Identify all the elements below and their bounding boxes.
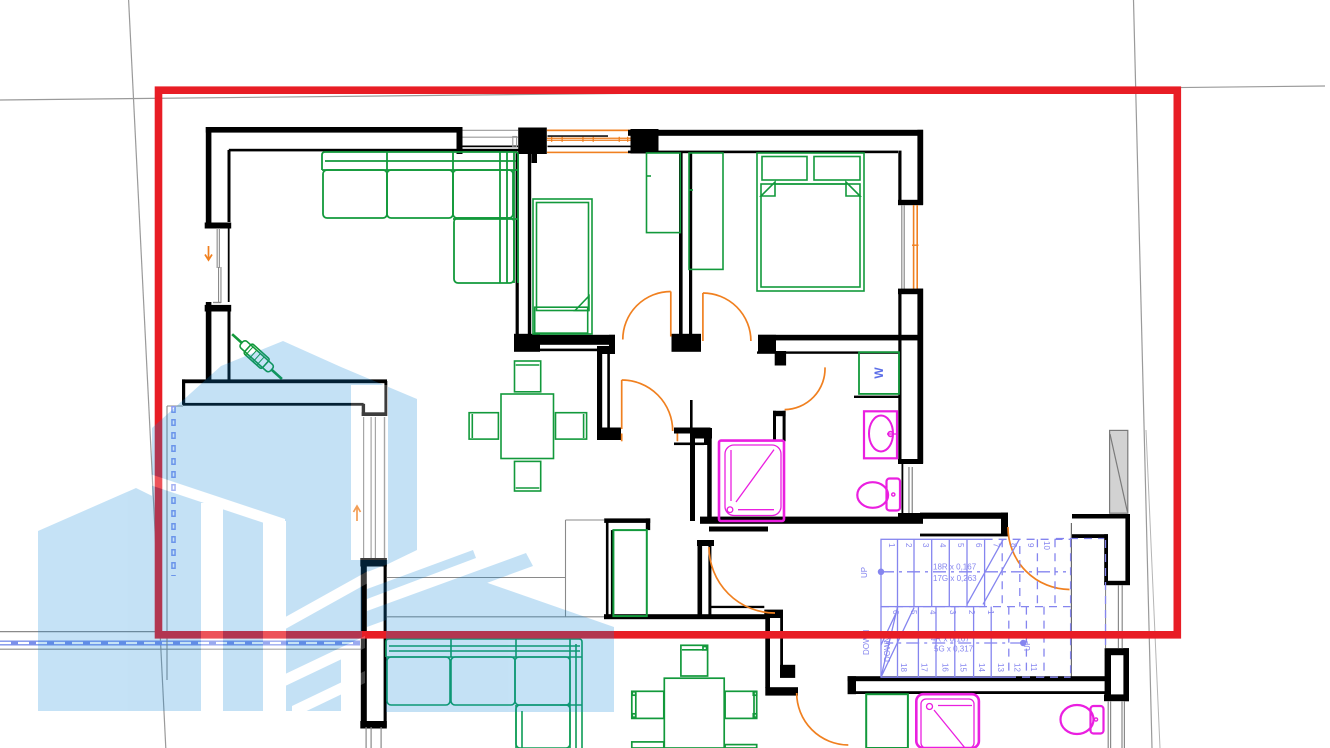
left window inner black line (228, 228, 230, 302)
svg-text:15: 15 (958, 663, 967, 672)
house A left (38, 488, 209, 711)
right wall lower band (1105, 655, 1111, 701)
dashed continuation upper (985, 539, 1071, 677)
right wall WC window gray lines (902, 464, 904, 513)
porch wall right pier outline (362, 404, 365, 416)
svg-text:4: 4 (928, 610, 937, 615)
treads lower flight (898, 607, 992, 678)
svg-text:5: 5 (909, 610, 918, 615)
bedroom2 partition (516, 153, 519, 334)
svg-text:7: 7 (992, 543, 1001, 548)
washing machine (859, 352, 899, 394)
lower unit entry door (797, 693, 849, 745)
svg-text:4: 4 (938, 543, 947, 548)
window swing arrow left (205, 246, 212, 260)
bedroom2 wardrobe (647, 153, 681, 233)
bedroom3 double bed (757, 153, 864, 291)
white swoosh gap 2 (292, 671, 365, 718)
lower dining table (632, 645, 757, 748)
top wall pier left of window W1a (457, 127, 463, 154)
porch wall left cap (182, 379, 185, 404)
lower shower (916, 694, 979, 748)
fence gray line upper (0, 631, 167, 633)
corridor door lower (709, 547, 775, 613)
svg-text:2: 2 (904, 543, 913, 548)
svg-text:UP: UP (1023, 640, 1032, 651)
lower unit interior L wall (711, 606, 764, 608)
sofa chaise (454, 218, 514, 283)
central-left window gray lines (363, 417, 385, 558)
svg-text:11: 11 (1029, 663, 1038, 672)
bedroom2 bottom wall (514, 335, 615, 345)
svg-text:W: W (872, 367, 886, 379)
break lines upper (967, 539, 1019, 604)
winder diagonals (881, 607, 914, 677)
bath bottom wall (700, 517, 923, 524)
stairwell door (1008, 527, 1070, 590)
center line upper with dot (878, 569, 883, 574)
survey boundary line right (1134, 0, 1153, 748)
hall-left wall (597, 346, 615, 354)
top wall outer left section (206, 127, 457, 133)
sofa back (322, 152, 518, 170)
white tower 1 (201, 503, 223, 711)
stair bottom wall (848, 676, 856, 694)
WC partition wall piece (773, 411, 786, 416)
kitchen door (621, 380, 623, 429)
left window gray lines (213, 228, 222, 303)
fence blue dashed line (0, 641, 360, 646)
stair right top L wall (1072, 514, 1130, 519)
svg-text:17G x 0,263: 17G x 0,263 (933, 574, 977, 583)
top wall inner line right section (628, 151, 898, 154)
treads upper flight (898, 539, 968, 606)
swoosh stripe 2 (367, 553, 533, 627)
bed2/bed3 partition (679, 153, 683, 334)
upper shower (719, 441, 784, 521)
window W1b black lines (548, 135, 609, 137)
right window W2 gray lines (901, 205, 905, 290)
svg-text:2: 2 (967, 610, 976, 615)
svg-text:18: 18 (899, 663, 908, 672)
fence gray line lower (0, 648, 363, 650)
left wall inner upper (228, 150, 231, 222)
svg-text:5: 5 (956, 543, 965, 548)
house E (386, 582, 614, 712)
left wall outer upper (206, 127, 212, 223)
bath left wall (690, 400, 693, 428)
left wall cap above window (205, 223, 232, 229)
center line lower with dot (1021, 640, 1026, 645)
corridor wall to lower unit (697, 540, 714, 546)
porch wall top line (182, 379, 387, 383)
right wall upper corner (917, 130, 923, 205)
bedroom2 single bed (533, 199, 592, 334)
central-left wall band (361, 558, 367, 727)
window swing arrow center (354, 506, 361, 521)
laundry shelf line (854, 396, 899, 398)
window W1b orange lines (547, 130, 631, 154)
bedroom3 door (702, 293, 704, 341)
porch gray edge (167, 406, 183, 680)
porch blue dashed line (171, 406, 176, 576)
lower unit door green rect (866, 694, 908, 748)
kitchen unit left black lines (606, 521, 609, 616)
lower sofa (386, 639, 582, 748)
upper dining table (469, 361, 586, 491)
white roof band (150, 474, 285, 530)
bedroom2 door (670, 292, 672, 337)
top wall outer right section (628, 130, 923, 136)
svg-text:12: 12 (1012, 663, 1021, 672)
top wall pier right of window W1b (631, 129, 659, 154)
right wall bottom corner (898, 513, 923, 523)
svg-text:UP: UP (860, 567, 869, 578)
survey boundary line left (129, 0, 166, 748)
upper toilet (857, 482, 888, 508)
svg-text:5G x 0,317: 5G x 0,317 (934, 645, 974, 654)
bedroom3 wardrobe (689, 153, 723, 269)
left wall pier lower (206, 302, 212, 381)
white swoosh gap 1 (281, 636, 365, 688)
partition notch below pier (532, 151, 538, 163)
lower unit top wall (604, 614, 768, 619)
bed3 bottom wall (758, 335, 776, 353)
top wall pier between windows (518, 128, 547, 155)
lower toilet (1061, 705, 1094, 734)
survey boundary line top (0, 86, 1325, 100)
svg-text:13: 13 (996, 663, 1005, 672)
stair top wall (920, 513, 1008, 519)
svg-text:6: 6 (891, 610, 900, 615)
swoosh stripe 1 (367, 550, 476, 599)
top wall inner line left section (229, 149, 520, 152)
svg-text:3: 3 (921, 543, 930, 548)
stair outline upper flight (881, 539, 985, 606)
white swoosh band upper (280, 571, 368, 632)
svg-text:1: 1 (887, 543, 896, 548)
right wall window gray lines upper (1105, 585, 1123, 648)
central-left lower window gray lines (366, 727, 382, 748)
window W1a sill lines (461, 130, 519, 137)
svg-text:8: 8 (1009, 543, 1018, 548)
svg-text:10: 10 (1042, 541, 1051, 550)
white doorway column (351, 385, 388, 560)
white tower 2 (263, 521, 286, 711)
svg-text:DOWN: DOWN (883, 636, 892, 662)
gray counter lines upper kitchen (387, 520, 604, 617)
bath door arc (785, 367, 825, 409)
svg-text:6: 6 (974, 543, 983, 548)
right window W2 orange lines (912, 205, 919, 290)
svg-text:18R x 0,167: 18R x 0,167 (933, 563, 977, 572)
right wall mid section (898, 289, 923, 295)
lower flight outline (881, 607, 1008, 678)
plant brush living room (228, 329, 286, 383)
porch wall bottom line (183, 403, 364, 406)
central mass (152, 341, 417, 711)
svg-text:16: 16 (941, 663, 950, 672)
svg-text:1: 1 (986, 610, 995, 615)
bath door notch pier (775, 351, 786, 366)
kitchen tall unit green (613, 530, 646, 616)
upper sink (864, 411, 897, 458)
sofa right armrest lines (500, 152, 518, 283)
svg-text:17: 17 (920, 663, 929, 672)
closet gray panel right side (1110, 430, 1128, 513)
stair well right thin edge (1071, 523, 1072, 677)
kitchen unit top black band (604, 518, 650, 523)
right wall lower window gray lines (1108, 701, 1125, 748)
svg-text:3: 3 (948, 610, 957, 615)
svg-text:9: 9 (1026, 543, 1035, 548)
svg-text:14: 14 (977, 663, 986, 672)
sofa seats (323, 170, 387, 218)
kitchen top-right wall (674, 428, 710, 434)
stair labels (860, 541, 1051, 672)
